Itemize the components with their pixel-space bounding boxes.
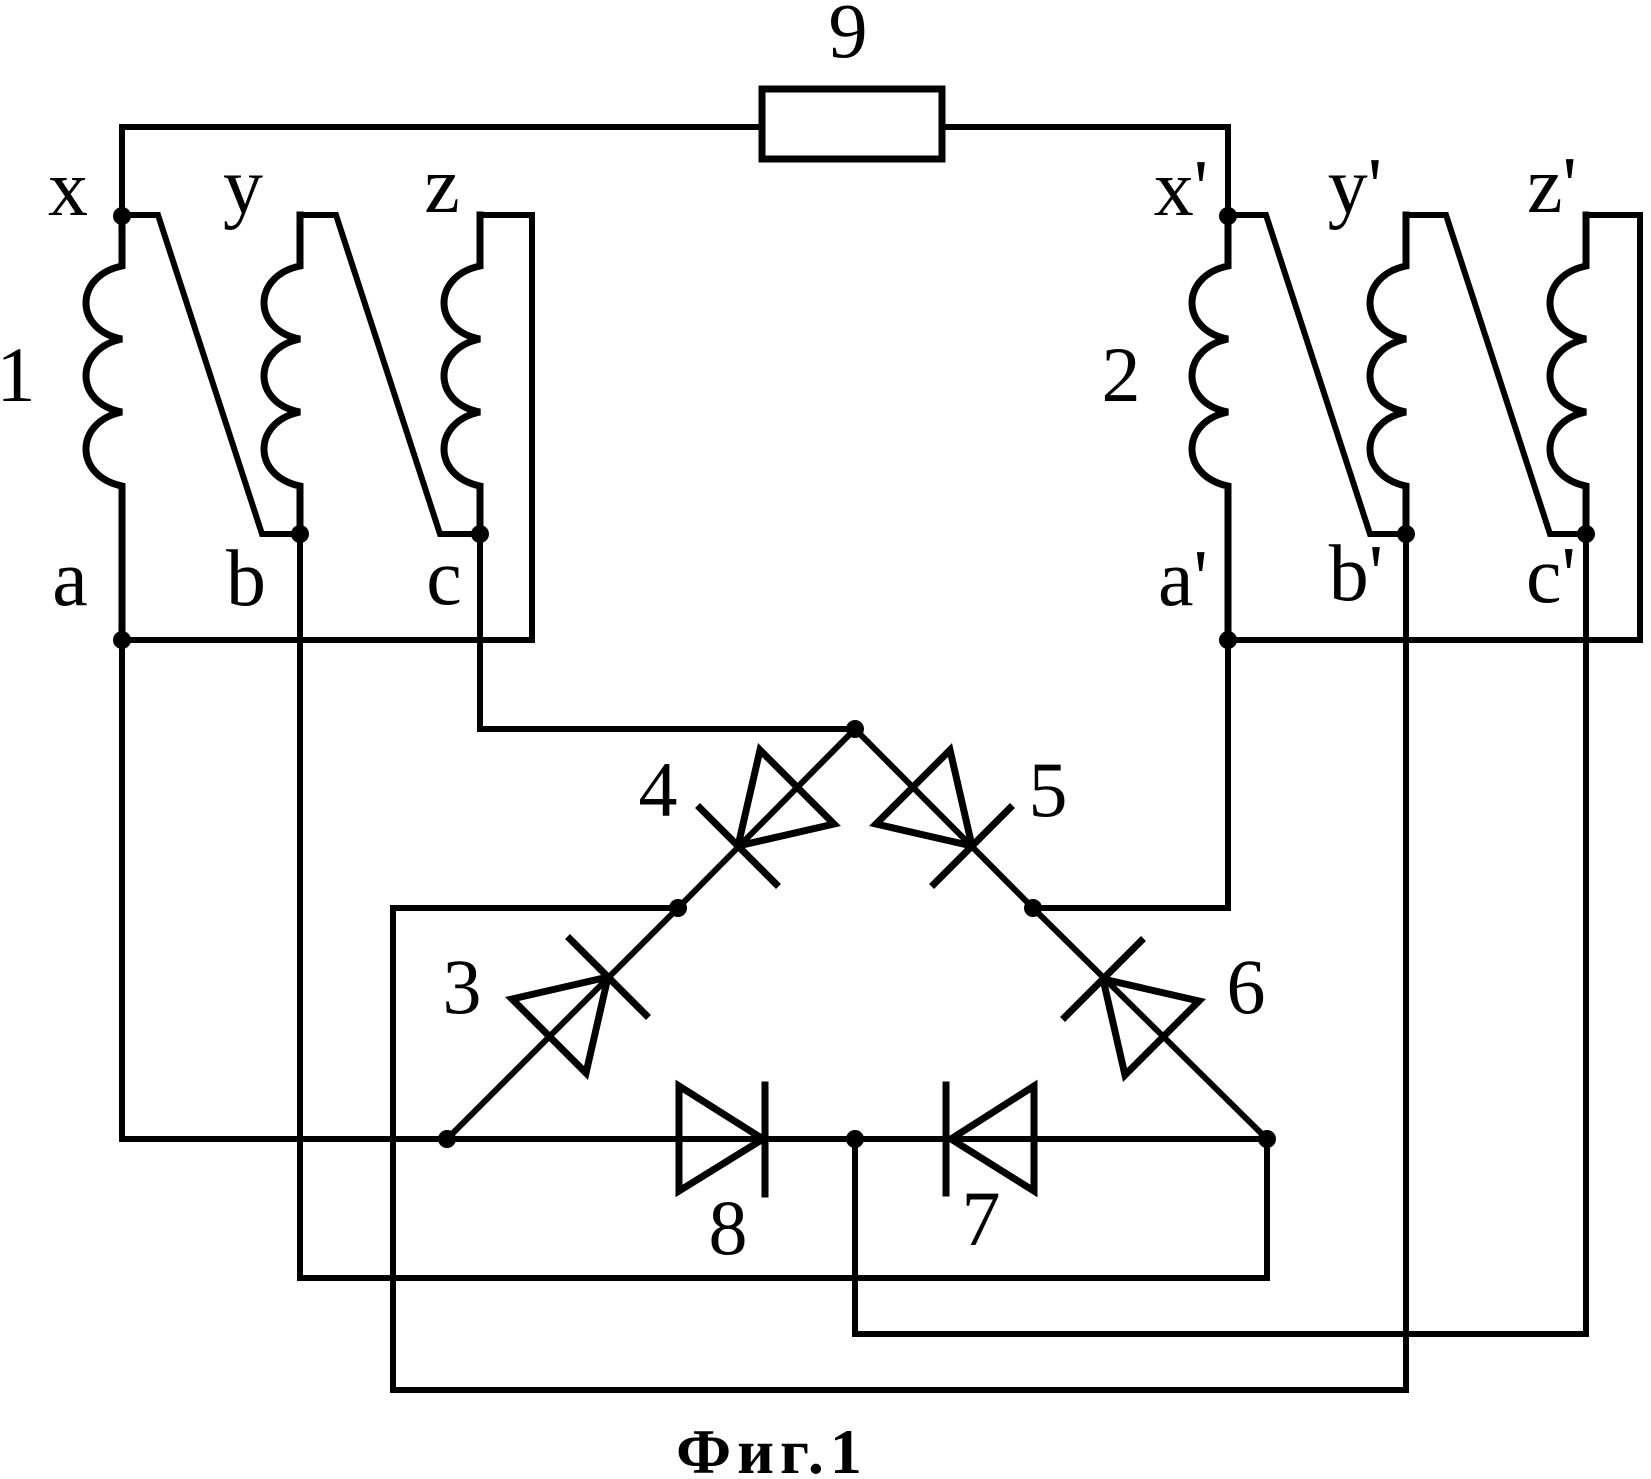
svg-text:a': a'	[1158, 535, 1208, 623]
junction mid-left node	[669, 899, 687, 917]
junction node x	[113, 207, 131, 225]
junction node c'	[1577, 525, 1595, 543]
junction node x'	[1219, 207, 1237, 225]
winding 2 coil x'-a'	[1192, 216, 1228, 640]
svg-text:Фиг.1: Фиг.1	[676, 1416, 868, 1479]
wire top bus left from node x to resistor 9	[122, 127, 762, 216]
wire diagonal apex to mid-left node	[678, 729, 855, 908]
wire left bus a	[122, 637, 532, 643]
junction apex node	[846, 720, 864, 738]
svg-text:x': x'	[1154, 145, 1208, 233]
winding 1 coil y-b	[264, 215, 300, 534]
junction bottom-left vertex	[438, 1130, 456, 1148]
wire y top step diagonal to node c	[300, 215, 480, 534]
wire z' top step riser to right bus	[1586, 215, 1640, 640]
wire diagonal mid-right to bottom-right vertex	[1033, 908, 1267, 1139]
winding 2 coil y'-b'	[1370, 215, 1406, 534]
wire mid-left node to node b'	[393, 534, 1406, 1390]
wire node b to bottom-right vertex	[300, 534, 1267, 1278]
junction bottom-right vertex	[1258, 1130, 1276, 1148]
svg-text:c: c	[426, 534, 462, 622]
winding 1 coil z-c	[444, 215, 480, 534]
junction node a	[113, 631, 131, 649]
svg-text:3: 3	[443, 943, 482, 1030]
junction node b'	[1397, 525, 1415, 543]
svg-text:z': z'	[1527, 142, 1577, 230]
svg-text:4: 4	[639, 746, 678, 833]
junction mid-right node	[1024, 899, 1042, 917]
svg-text:2: 2	[1102, 331, 1141, 418]
thyristor 6	[1065, 941, 1199, 1075]
svg-text:6: 6	[1227, 943, 1266, 1030]
wire bottom rail	[447, 1136, 1267, 1142]
diode 8	[679, 1085, 765, 1194]
wire diagonal mid-left to bottom-left vertex	[447, 908, 678, 1139]
thyristor 3	[512, 939, 646, 1073]
wire x' top step diagonal to node b'	[1228, 215, 1406, 534]
wire x top step diagonal to node b	[122, 215, 300, 534]
svg-text:1: 1	[0, 331, 36, 418]
thyristor 5	[876, 750, 1010, 884]
wire diagonal apex to mid-right node	[855, 729, 1033, 908]
svg-text:y': y'	[1328, 143, 1382, 231]
svg-text:7: 7	[962, 1175, 1001, 1262]
winding 1 coil x-a	[86, 216, 122, 640]
wire mid-right node to node a'	[1033, 640, 1228, 908]
wire node c to bridge apex	[480, 534, 855, 729]
winding 2 coil z'-c'	[1550, 215, 1586, 534]
svg-text:5: 5	[1029, 746, 1068, 833]
svg-text:b': b'	[1329, 530, 1383, 618]
wire center bottom node to node c'	[855, 534, 1586, 1334]
wire y' top step diagonal to node c'	[1406, 215, 1586, 534]
svg-text:8: 8	[709, 1184, 748, 1271]
svg-text:b: b	[226, 535, 266, 623]
thyristor 4	[700, 750, 834, 884]
junction node b	[291, 525, 309, 543]
svg-text:z: z	[424, 142, 460, 230]
svg-text:a: a	[52, 535, 88, 623]
wire top bus right from resistor 9 to node x'	[942, 127, 1228, 216]
wire right bus a'	[1228, 637, 1640, 643]
resistor R9 body	[762, 89, 942, 159]
junction node a'	[1219, 631, 1237, 649]
svg-text:9: 9	[829, 0, 868, 74]
svg-text:x: x	[48, 145, 88, 233]
svg-text:y: y	[223, 143, 263, 231]
wire node a to bottom-left vertex	[122, 640, 447, 1139]
svg-text:c': c'	[1526, 532, 1576, 620]
diode 7	[946, 1085, 1034, 1193]
junction center bottom node	[846, 1130, 864, 1148]
wire z top step riser to left bus	[480, 215, 532, 640]
junction node c	[471, 525, 489, 543]
